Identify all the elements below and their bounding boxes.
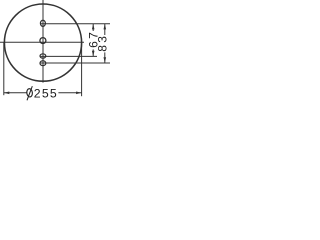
label 83 background	[102, 35, 107, 52]
label φ255	[26, 86, 32, 100]
left extension line (φ255)	[3, 42, 5, 95]
arrowhead right (φ255)	[76, 92, 81, 95]
dimension line φ255 (horizontal)	[4, 92, 82, 94]
leader line from screw 4	[41, 62, 110, 64]
leader line from screw 1	[41, 23, 110, 25]
screw 2 (round knob at center)	[40, 38, 46, 44]
screw 1 (oval head)	[40, 20, 45, 26]
arrowhead up (67)	[92, 24, 95, 29]
right extension line (φ255)	[81, 43, 83, 97]
label 67 background	[91, 31, 96, 49]
svg-text:255: 255	[34, 87, 58, 101]
dimension line 83 (vertical)	[104, 24, 106, 63]
arrowhead left (φ255)	[4, 92, 9, 95]
arrowhead down (67)	[92, 51, 95, 56]
arrowhead up (83)	[104, 24, 107, 29]
svg-text:83: 83	[96, 34, 110, 52]
label φ255 background	[27, 86, 59, 100]
screw 3 (flat oval head)	[40, 54, 46, 58]
vertical centerline	[42, 0, 44, 83]
leader line from screw 3	[41, 55, 97, 57]
arrowhead down (83)	[104, 57, 107, 62]
horizontal centerline	[0, 41, 84, 43]
fixture body circle (plan view, φ255)	[4, 4, 81, 81]
dimension line 67 (vertical)	[92, 24, 94, 56]
screw 4 (oval head)	[40, 61, 46, 66]
